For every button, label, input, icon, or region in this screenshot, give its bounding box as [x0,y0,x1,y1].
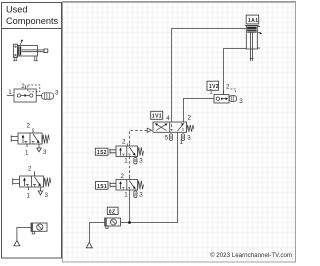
svg-text:0Z: 0Z [109,209,116,215]
svg-text:2: 2 [27,123,31,130]
svg-text:1V1: 1V1 [152,114,162,120]
svg-text:1: 1 [27,193,31,200]
svg-text:© 2023 Learnchannel-TV.com: © 2023 Learnchannel-TV.com [210,252,292,259]
svg-text:1: 1 [25,150,29,157]
svg-text:1: 1 [124,158,128,165]
svg-text:3: 3 [139,192,143,199]
svg-text:3: 3 [239,98,243,105]
svg-text:3: 3 [55,90,59,97]
svg-text:1S2: 1S2 [97,150,107,156]
svg-text:1A1: 1A1 [248,18,258,24]
svg-text:3: 3 [139,158,143,165]
svg-text:2: 2 [226,84,230,91]
svg-text:Used: Used [6,5,27,15]
svg-text:2: 2 [21,83,25,90]
svg-text:3: 3 [187,135,191,142]
svg-text:1: 1 [209,89,213,96]
svg-text:1: 1 [8,89,12,96]
svg-text:1: 1 [180,139,184,146]
svg-text:2: 2 [188,115,192,122]
svg-text:2: 2 [121,173,125,180]
svg-text:Components: Components [6,16,58,26]
svg-text:2: 2 [28,166,32,173]
svg-text:1S1: 1S1 [97,184,107,190]
svg-text:3: 3 [43,149,47,156]
svg-text:4: 4 [166,115,170,122]
svg-text:1: 1 [124,192,128,199]
svg-text:2: 2 [122,139,126,146]
svg-text:3: 3 [45,192,49,199]
svg-text:5: 5 [165,135,169,142]
